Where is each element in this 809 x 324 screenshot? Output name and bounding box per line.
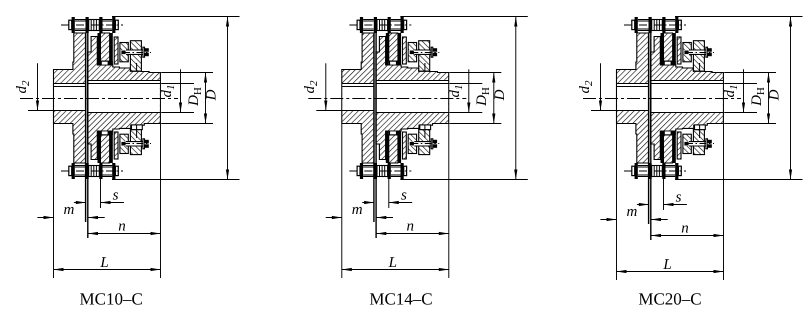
fig2 dim n line xyxy=(376,233,449,235)
fig3 dim D line xyxy=(790,17,792,180)
fig3 bottom cover bolt hole xyxy=(684,142,705,146)
fig3 top right sprocket tooth xyxy=(664,33,673,61)
fig2 dim L line xyxy=(342,269,449,271)
fig1 bottom chain pins xyxy=(72,163,75,179)
fig3 dim m line xyxy=(600,219,616,221)
fig1 dim L line xyxy=(54,269,161,271)
fig3 junction line right hub face xyxy=(650,33,652,240)
fig3 bottom cover bolt centerline xyxy=(686,143,714,145)
fig3 top chain bushing xyxy=(652,20,663,31)
fig3 dim L line xyxy=(617,271,724,273)
svg-text:d2: d2 xyxy=(14,80,32,94)
fig2 dim m line xyxy=(326,217,342,219)
fig1 dim DH extension lines xyxy=(161,72,213,74)
fig1 bottom cover bolt shank xyxy=(126,141,143,143)
fig3 top cover boss inner xyxy=(683,43,691,62)
fig3 bottom cover lip tab xyxy=(695,125,706,130)
fig2 top chain end caps xyxy=(357,20,360,29)
fig2 top cover bolt centerline xyxy=(411,52,439,54)
fig1 dim s line xyxy=(74,202,86,204)
fig2 top cover bolt head xyxy=(433,48,437,56)
fig2 bottom right sprocket tooth xyxy=(389,135,398,163)
fig3 bottom chain pins xyxy=(635,163,638,179)
fig3 top chain pins xyxy=(635,17,638,33)
fig2 top chain pins xyxy=(360,17,363,33)
fig3 bottom cover bolt shank xyxy=(689,141,706,143)
fig3 junction line left hub face xyxy=(648,33,650,224)
fig2 bottom chain centerline xyxy=(349,170,411,172)
fig1 right half coupling body xyxy=(88,37,161,160)
svg-text:MC14–C: MC14–C xyxy=(369,289,432,308)
fig3 dim d1 extension lines xyxy=(724,83,757,85)
fig1 top chain bushing xyxy=(89,20,100,31)
svg-text:DH: DH xyxy=(474,87,492,107)
fig1 right hub bore d1 xyxy=(88,81,160,113)
fig1 top chain end caps xyxy=(69,20,72,29)
svg-text:s: s xyxy=(113,187,119,203)
fig3 dim s extension line xyxy=(663,163,665,210)
svg-text:L: L xyxy=(662,257,671,273)
fig2 top right sprocket tooth xyxy=(389,33,398,61)
fig1 left hub bore d2 xyxy=(54,84,86,111)
fig2 top cover bolt end xyxy=(410,51,414,55)
fig3 bottom cover lip edge xyxy=(699,125,701,138)
fig1 bottom cover wall xyxy=(114,132,118,159)
fig1 dim d2 extension line xyxy=(28,110,53,112)
fig1 left half coupling body xyxy=(54,33,86,163)
fig1 top cover bolt end xyxy=(121,51,125,55)
fig2 bottom cover bolt centerline xyxy=(411,143,439,145)
fig2 dim d1 extension lines xyxy=(450,83,483,85)
fig3 bottom cover wall xyxy=(677,132,681,159)
fig2 bottom right tooth root band xyxy=(389,131,401,135)
fig2 top cover wall xyxy=(403,37,407,64)
fig1 bottom chain centerline xyxy=(61,170,123,172)
svg-text:MC10–C: MC10–C xyxy=(80,289,143,308)
fig2 bottom chain link plates xyxy=(363,165,374,167)
fig1 top cover bolt washer xyxy=(143,47,145,57)
fig2 dim s line xyxy=(362,202,374,204)
fig2 dim d2 line xyxy=(325,63,327,110)
fig1 bottom chain end caps xyxy=(69,166,72,175)
fig2 left hub bore d2 xyxy=(342,84,374,111)
svg-text:s: s xyxy=(401,187,407,203)
fig2 dim DH extension lines xyxy=(450,72,502,74)
fig3 dim DH line xyxy=(768,73,770,124)
svg-text:d1: d1 xyxy=(447,85,465,98)
fig2 top chain link plates xyxy=(363,19,374,21)
fig1 dim n line xyxy=(88,233,161,235)
fig1 bottom cover bolt end xyxy=(121,142,125,146)
fig3 top cover bolt shank xyxy=(689,49,706,51)
fig2 dim d1 line xyxy=(468,69,470,112)
fig3 bottom cover bolt washer xyxy=(706,139,708,149)
fig1 top chain link plates xyxy=(75,19,86,21)
fig3 main centerline xyxy=(583,98,741,100)
fig3 dim d2 line xyxy=(600,63,602,110)
fig1 bottom cover boss inner xyxy=(120,134,128,153)
fig1 bottom cover bolt washer xyxy=(143,139,145,149)
fig2 dim d2 extension line xyxy=(316,110,341,112)
svg-text:L: L xyxy=(99,255,108,271)
fig2 bottom cover bolt shank xyxy=(414,141,431,143)
fig1 junction line left hub face xyxy=(85,33,87,222)
fig3 top cover bolt head xyxy=(708,48,712,56)
fig3 left half coupling body xyxy=(617,33,649,163)
svg-text:D: D xyxy=(492,89,508,101)
fig2 bottom cover bolt head xyxy=(433,140,437,148)
fig1 dim L extension lines xyxy=(53,124,55,278)
fig1 top cover boss outer xyxy=(130,41,141,71)
fig3 top chain end caps xyxy=(632,20,635,29)
svg-text:DH: DH xyxy=(749,87,767,107)
fig2 bottom cover bolt hole xyxy=(409,142,430,146)
fig2 main centerline xyxy=(308,98,466,100)
fig3 top cover wall xyxy=(677,37,681,64)
fig1 top right tooth root band xyxy=(101,61,113,65)
fig2 bottom chain end caps xyxy=(357,166,360,175)
fig1 top chain centerline xyxy=(61,24,123,26)
fig2 right hub bore d1 xyxy=(377,81,449,113)
fig3 bottom chain bushing xyxy=(652,166,663,177)
fig3 right hub bore d1 xyxy=(651,81,723,113)
fig1 dim s extension line xyxy=(100,163,102,208)
svg-text:D: D xyxy=(204,89,220,101)
fig2 bottom chain bushing xyxy=(377,166,388,177)
fig3 top cover bolt centerline xyxy=(686,52,714,54)
fig1 bottom cover bolt head xyxy=(145,140,149,148)
fig1 bottom cover lip edge xyxy=(136,125,138,138)
fig2 dim D line xyxy=(515,17,517,180)
svg-text:m: m xyxy=(352,202,363,218)
fig1 dim D extension lines xyxy=(112,16,240,18)
svg-text:DH: DH xyxy=(186,87,204,107)
fig3 dim DH extension lines xyxy=(724,72,776,74)
fig1 top cover bolt head xyxy=(145,48,149,56)
fig1 top right sprocket tooth xyxy=(101,33,110,61)
fig3 bottom cover boss inner xyxy=(683,134,691,153)
fig1 bottom cover bolt hole xyxy=(121,142,142,146)
fig3 dim n line xyxy=(651,235,724,237)
fig2 junction line left hub face xyxy=(373,33,375,222)
fig3 top chain centerline xyxy=(624,24,686,26)
svg-text:n: n xyxy=(118,218,126,234)
fig2 bottom cover bolt end xyxy=(410,142,414,146)
fig1 top cover bolt shank xyxy=(126,49,143,51)
fig3 bottom cover bolt end xyxy=(684,142,688,146)
fig2 top chain bushing xyxy=(377,20,388,31)
fig1 dim DH line xyxy=(205,73,207,124)
fig3 left hub bore d2 xyxy=(617,84,649,111)
fig1 top cover wall xyxy=(114,37,118,64)
fig3 top cover boss outer xyxy=(693,41,704,71)
fig3 dim d2 extension line xyxy=(591,110,616,112)
fig2 dim s extension line xyxy=(388,163,390,208)
fig2 right half coupling body xyxy=(376,37,449,160)
fig3 bottom chain end caps xyxy=(632,166,635,175)
fig3 bottom chain link plates xyxy=(638,165,649,167)
fig3 dim L extension lines xyxy=(616,124,618,280)
svg-text:D: D xyxy=(767,89,783,101)
fig1 bottom right tooth root band xyxy=(101,131,113,135)
svg-text:L: L xyxy=(388,255,397,271)
fig1 top cover boss inner xyxy=(120,43,128,62)
fig1 dim m line xyxy=(37,217,53,219)
fig1 bottom right sprocket tooth xyxy=(101,135,110,163)
fig2 bottom cover boss inner xyxy=(408,134,416,153)
fig3 bottom chain centerline xyxy=(624,170,686,172)
svg-text:n: n xyxy=(407,218,415,234)
fig2 bottom cover lip edge xyxy=(424,125,426,138)
fig2 bottom chain pins xyxy=(360,163,363,179)
svg-text:d1: d1 xyxy=(722,85,740,98)
fig3 top cover bolt end xyxy=(684,51,688,55)
svg-text:d2: d2 xyxy=(302,80,320,94)
svg-text:MC20–C: MC20–C xyxy=(638,289,701,308)
fig1 bottom cover boss outer xyxy=(130,130,141,155)
fig2 junction line right hub face xyxy=(375,33,377,238)
fig3 top chain link plates xyxy=(638,19,649,21)
svg-text:m: m xyxy=(626,204,637,220)
svg-text:m: m xyxy=(63,202,74,218)
fig2 top cover bolt washer xyxy=(431,47,433,57)
fig1 top cover bolt hole xyxy=(121,50,142,54)
fig3 dim s line xyxy=(637,204,649,206)
fig1 bottom cover lip tab xyxy=(132,125,143,130)
fig1 bottom chain link plates xyxy=(75,165,86,167)
fig1 top chain pins xyxy=(72,17,75,33)
fig2 top cover bolt hole xyxy=(409,50,430,54)
fig2 bottom cover boss outer xyxy=(419,130,430,155)
fig1 dim D line xyxy=(227,17,229,180)
fig2 bottom cover wall xyxy=(403,132,407,159)
fig3 bottom right tooth root band xyxy=(664,131,676,135)
fig2 dim L extension lines xyxy=(341,124,343,278)
svg-text:n: n xyxy=(681,220,689,236)
fig2 top chain centerline xyxy=(349,24,411,26)
fig3 top cover bolt hole xyxy=(684,50,705,54)
fig2 top cover boss outer xyxy=(419,41,430,71)
fig1 top cover bolt centerline xyxy=(123,52,151,54)
fig1 main centerline xyxy=(20,98,178,100)
fig3 bottom cover boss outer xyxy=(693,130,704,155)
fig1 dim d1 extension lines xyxy=(161,83,194,85)
fig1 dim d1 line xyxy=(180,69,182,112)
svg-text:d2: d2 xyxy=(577,80,595,94)
svg-text:s: s xyxy=(676,189,682,205)
fig3 top right tooth root band xyxy=(664,61,676,65)
fig1 top cover lip edge xyxy=(136,63,138,71)
fig3 dim D extension lines xyxy=(675,16,803,18)
fig1 bottom chain bushing xyxy=(89,166,100,177)
fig2 bottom cover lip tab xyxy=(420,125,431,130)
fig1 junction line right hub face xyxy=(87,33,89,238)
svg-text:d1: d1 xyxy=(159,85,177,98)
fig2 dim D extension lines xyxy=(400,16,528,18)
fig2 top cover lip edge xyxy=(424,63,426,71)
fig3 bottom right sprocket tooth xyxy=(664,135,673,163)
fig3 dim d1 line xyxy=(743,69,745,112)
fig2 bottom cover bolt washer xyxy=(431,139,433,149)
fig2 top right tooth root band xyxy=(389,61,401,65)
fig3 top cover lip edge xyxy=(699,63,701,71)
fig3 top cover bolt washer xyxy=(706,47,708,57)
fig2 top cover bolt shank xyxy=(414,49,431,51)
fig1 dim d2 line xyxy=(37,63,39,110)
fig2 dim DH line xyxy=(493,73,495,124)
fig2 top cover boss inner xyxy=(408,43,416,62)
fig1 bottom cover bolt centerline xyxy=(123,143,151,145)
fig3 right half coupling body xyxy=(651,37,724,160)
fig2 left half coupling body xyxy=(342,33,374,163)
fig3 bottom cover bolt head xyxy=(708,140,712,148)
